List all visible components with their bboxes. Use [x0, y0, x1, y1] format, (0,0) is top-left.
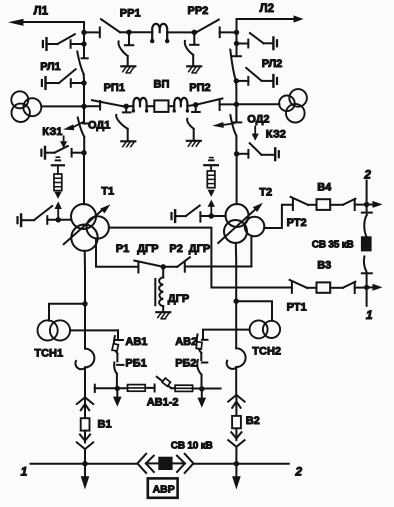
outgoing arrow of АВ2 branch	[198, 389, 207, 408]
switch РБ1	[114, 354, 147, 389]
10kV busbar section 1	[21, 464, 138, 479]
svg-text:РЛ1: РЛ1	[40, 61, 60, 73]
earthing switch on Л2 bus (upper)	[237, 33, 278, 49]
outgoing arrow below В1 node	[81, 464, 90, 490]
svg-text:РР1: РР1	[120, 8, 141, 20]
svg-text:ДГР: ДГР	[137, 243, 158, 255]
separator ОД2 in bus	[230, 104, 269, 154]
automatic transfer device АВР box	[148, 478, 178, 497]
disconnector Р1	[116, 243, 163, 273]
node: bus / В1 feeder	[82, 461, 87, 466]
svg-text:РП1: РП1	[104, 82, 125, 94]
svg-text:2: 2	[363, 167, 371, 181]
wire: left bus middle section	[83, 74, 85, 106]
node: В4 line / 35kV bus section 2, outgoing arrow	[364, 201, 383, 208]
svg-text:КЗ2: КЗ2	[266, 129, 286, 141]
node: РП2 / earthing branch	[193, 102, 198, 107]
arrester (tube type) on Т2 neutral	[204, 158, 218, 216]
wire: tie to АВ2 branch	[193, 388, 221, 390]
disconnector Р2	[163, 243, 251, 272]
short-circuiting switch КЗ2	[237, 129, 286, 160]
wire: Т2 10kV feeder upper	[235, 243, 237, 348]
voltage transformer ТН2	[236, 89, 307, 122]
svg-text:Л2: Л2	[260, 3, 274, 15]
short-circuiting switch КЗ1	[41, 126, 84, 159]
node: ТСН1 tap	[82, 301, 87, 306]
wire: Т2 ДГР tap	[250, 236, 252, 267]
wire: left 110kV bus upper section	[83, 22, 85, 58]
line trap coil (bridge, left)	[132, 98, 149, 113]
svg-text:АВР: АВР	[153, 484, 175, 496]
disconnector РЛ1 in bus	[40, 52, 87, 75]
svg-text:СВ 35 кВ: СВ 35 кВ	[312, 240, 354, 251]
disconnector РР2	[167, 5, 236, 37]
svg-text:1: 1	[366, 308, 373, 322]
earthing switch at РР2 node	[185, 32, 201, 73]
node: bus / ТН1 / РП1 junction	[81, 104, 86, 109]
node: bus / РР1 tap junction	[81, 30, 86, 35]
withdrawable circuit breaker В2	[228, 395, 260, 464]
svg-text:КЗ1: КЗ1	[42, 126, 62, 138]
circuit breaker В3	[317, 259, 332, 292]
node: bus / earthing switch junction (right upper)	[234, 41, 239, 46]
disconnector РП2	[187, 82, 236, 110]
arrow of ОД1 (auto-open indicator)	[63, 122, 82, 130]
svg-text:Р1: Р1	[116, 243, 129, 255]
svg-text:ВП: ВП	[154, 79, 170, 91]
sectioning breaker АВ1-2	[145, 377, 178, 409]
line trap coil (bridge, right)	[173, 98, 190, 113]
disconnector РЛ2 in bus	[230, 50, 282, 81]
svg-text:АВ2: АВ2	[175, 336, 197, 348]
svg-text:ОД1: ОД1	[88, 120, 110, 132]
svg-text:РЛ2: РЛ2	[262, 58, 282, 70]
svg-text:РТ1: РТ1	[287, 301, 307, 313]
earthing switch at РП1 node	[116, 106, 135, 146]
automatic breaker АВ2	[175, 330, 207, 353]
svg-text:1: 1	[21, 465, 28, 479]
node: bus / РР2 tap junction	[234, 30, 239, 35]
bus-side disconnector of В3 line	[330, 282, 366, 293]
station service transformer ТСН2	[203, 301, 281, 357]
node: РП1 / earthing branch	[124, 104, 129, 109]
wire: right 110kV bus upper section	[236, 19, 238, 56]
line Л1 incoming feeder arrow	[8, 6, 84, 26]
disconnector РП1	[84, 82, 133, 110]
svg-text:В3: В3	[317, 259, 331, 271]
svg-text:ДГР: ДГР	[168, 293, 189, 305]
fuse (right) in tie	[175, 385, 193, 391]
node: АВ1 branch / АВ1-2 tie	[115, 386, 120, 391]
wire: Т1 ДГР tap	[96, 239, 138, 267]
earthing switch at РР1 node	[118, 32, 135, 73]
node: РР2 / earthing branch	[192, 30, 197, 35]
svg-text:В1: В1	[98, 418, 112, 430]
separator ОД1 in bus	[78, 106, 111, 152]
node: Т1 neutral / arrester	[56, 217, 61, 222]
svg-text:ОД2: ОД2	[247, 114, 269, 126]
disconnector РТ1	[287, 280, 317, 314]
line Л2 incoming feeder arrow	[237, 3, 304, 23]
svg-text:ДГР: ДГР	[189, 243, 210, 255]
outgoing arrow of АВ1 branch	[113, 388, 122, 406]
10kV busbar section 2	[193, 464, 302, 479]
circuit breaker В4	[317, 181, 333, 210]
disconnector РР1	[84, 8, 152, 38]
node: bus / КЗ1 junction	[81, 150, 86, 155]
node: bus / КЗ2 junction	[234, 151, 239, 156]
switch РБ2	[175, 353, 207, 389]
lower disconnector of СВ 35 кВ	[362, 256, 372, 287]
svg-text:СВ 10 кВ: СВ 10 кВ	[171, 440, 213, 451]
svg-text:АВ1-2: АВ1-2	[147, 397, 179, 409]
wire: Т1 35kV winding to В3 feeder (L-path)	[109, 228, 292, 288]
35kV bus stub to label 1	[366, 287, 373, 322]
svg-text:ТСН2: ТСН2	[252, 346, 281, 358]
svg-text:РП2: РП2	[189, 82, 210, 94]
withdrawable contact on Т1 feeder	[75, 349, 94, 398]
arrow of КЗ2 (auto-close indicator)	[252, 127, 259, 141]
node: bus / lower earthing switch junction	[81, 80, 86, 85]
svg-text:Т1: Т1	[101, 186, 114, 198]
svg-text:Л1: Л1	[34, 6, 49, 18]
withdrawable circuit breaker В1	[77, 397, 112, 463]
bus-side disconnector of В4 line	[330, 199, 366, 210]
node: ДГР junction	[161, 264, 166, 269]
automatic breaker АВ1	[112, 330, 147, 353]
svg-text:Т2: Т2	[259, 187, 272, 199]
node: bus / earthing switch junction (right lower)	[234, 78, 239, 83]
withdrawable contact on Т2 feeder	[227, 348, 246, 395]
node: АВ2 branch / АВ1-2 tie	[199, 386, 204, 391]
earthing switch at РП2 node	[187, 105, 201, 146]
wire: right bus middle section	[235, 81, 238, 123]
wire: bus down to Т1	[83, 153, 85, 205]
fuse (left) in tie	[128, 385, 146, 392]
station service transformer ТСН1	[34, 304, 118, 360]
outgoing arrow below В2 node	[232, 464, 241, 490]
wire: Т2 35kV winding riser to В4 feeder	[264, 205, 293, 228]
wire: bus down to Т2	[236, 154, 238, 204]
section breaker СВ 10 кВ (withdrawable, closed)	[137, 440, 212, 473]
svg-text:ТСН1: ТСН1	[34, 348, 63, 360]
svg-text:2: 2	[294, 464, 302, 478]
svg-text:РБ1: РБ1	[125, 357, 146, 369]
node: bus / ТН2 / РП2 junction	[234, 102, 239, 107]
svg-text:РТ2: РТ2	[287, 217, 307, 229]
svg-text:В4: В4	[317, 181, 332, 193]
wire: Т1 10kV feeder upper	[84, 251, 86, 349]
neutral earthing switch of Т2	[172, 206, 226, 222]
voltage transformer ТН1	[11, 91, 84, 122]
earthing switch on Л1 bus (lower)	[42, 69, 84, 89]
svg-text:РР2: РР2	[188, 5, 209, 17]
node: Т2 neutral / arrester	[209, 213, 214, 218]
node: ТСН2 tap	[234, 299, 239, 304]
circuit breaker ВП (bridge)	[147, 79, 175, 112]
arrow of КЗ1 (auto-close indicator)	[60, 136, 67, 148]
tie line 0.4kV with end bar	[95, 385, 128, 392]
node: В3 line / 35kV bus section 1, outgoing arrow	[364, 284, 383, 291]
svg-text:Р2: Р2	[169, 243, 182, 255]
transformer Т1 (three-winding, with tap changer arrow)	[64, 186, 114, 251]
arc suppression coil ДГР with core	[155, 267, 189, 319]
node: bus / earthing switch junction	[81, 41, 86, 46]
arrester (tube type) on Т1 neutral	[52, 157, 64, 220]
arrow of ОД2 (auto-open indicator)	[212, 122, 234, 128]
upper disconnector of СВ 35 кВ	[362, 205, 372, 237]
svg-text:АВ1: АВ1	[125, 336, 147, 348]
35kV bus stub to label 2	[363, 167, 371, 204]
node: bus / В2 feeder	[234, 461, 239, 466]
svg-text:РБ2: РБ2	[175, 357, 196, 369]
node: РР1 / earthing branch	[126, 30, 131, 35]
line trap coil (bypass)	[150, 24, 169, 44]
disconnector РТ2	[287, 197, 317, 229]
transformer Т2 (three-winding, with tap changer arrow)	[218, 187, 272, 243]
earthing switch on Л1 bus (upper)	[43, 34, 84, 50]
neutral earthing switch of Т1	[18, 206, 72, 226]
section circuit breaker СВ 35 кВ (closed, filled)	[312, 236, 372, 251]
earthing switch on Л2 bus (lower)	[236, 68, 277, 87]
svg-text:В2: В2	[246, 415, 260, 427]
